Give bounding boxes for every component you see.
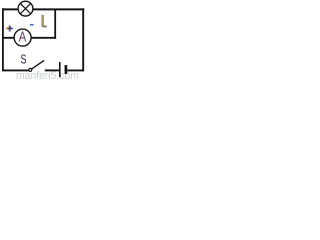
svg-text:A: A: [19, 29, 27, 46]
svg-text:manfen5.com: manfen5.com: [16, 70, 79, 79]
svg-text:S: S: [21, 52, 27, 67]
